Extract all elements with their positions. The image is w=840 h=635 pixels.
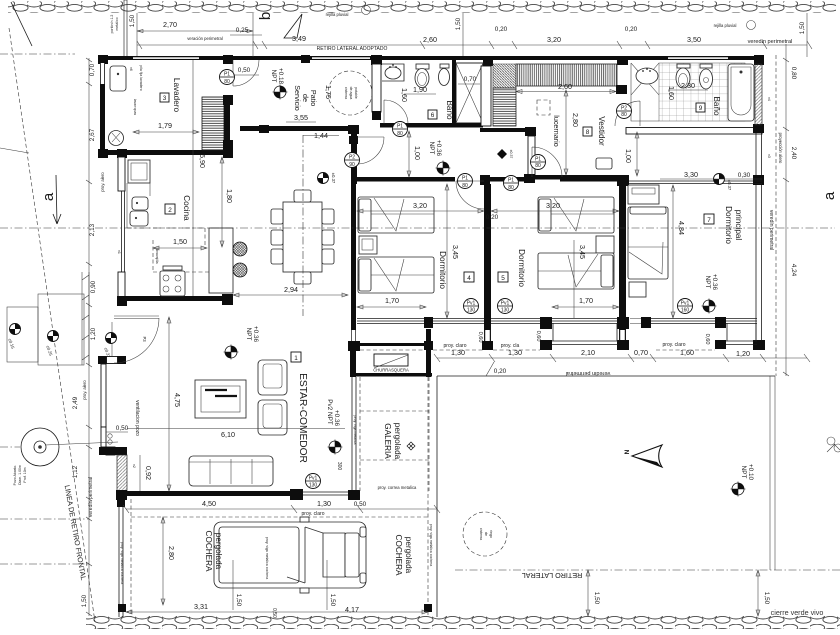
svg-text:NPT: NPT (270, 70, 277, 83)
npt symbol garden +0.10 (731, 482, 746, 497)
svg-text:0,70: 0,70 (634, 348, 648, 357)
svg-text:v2: v2 (132, 464, 136, 468)
door arc bath6 (384, 100, 408, 124)
svg-text:Dormitorio: Dormitorio (438, 251, 447, 289)
svg-text:1,50: 1,50 (81, 594, 88, 607)
bath9 bathtub (728, 64, 754, 121)
column east SE (753, 340, 765, 350)
svg-text:ventilacion pozo: ventilacion pozo (134, 400, 140, 436)
window bay dorm5 (552, 319, 618, 345)
section arrow a left (53, 175, 61, 224)
lucernario dark triangle corner (493, 64, 516, 88)
svg-text:proy. alero: proy. alero (82, 380, 87, 400)
bath9 sink (636, 68, 658, 84)
svg-text:cisterna: cisterna (344, 87, 348, 99)
hatched column circle 2 (233, 263, 247, 277)
svg-text:80: 80 (224, 79, 230, 85)
svg-text:3,55: 3,55 (294, 113, 308, 122)
svg-text:b: b (257, 12, 274, 20)
svg-text:Vestidor: Vestidor (597, 116, 606, 146)
svg-text:veración perimetral: veración perimetral (187, 36, 223, 41)
svg-text:3,20: 3,20 (413, 201, 427, 210)
svg-text:0,60: 0,60 (535, 331, 541, 342)
svg-text:COCHERA: COCHERA (204, 531, 213, 572)
svg-text:P2: P2 (621, 106, 627, 112)
stone boundary wall top (8, 2, 836, 13)
column top wall x488 (483, 56, 493, 66)
door circle bath6 P1 (393, 122, 408, 138)
svg-text:0,80: 0,80 (790, 67, 797, 80)
svg-text:6,10: 6,10 (221, 430, 235, 439)
wall: top exterior (100, 56, 762, 60)
column top wall x623 (617, 56, 628, 65)
dorm4 bed2 (358, 257, 434, 293)
svg-text:Baño: Baño (712, 96, 721, 116)
svg-text:0,50: 0,50 (271, 608, 277, 618)
svg-text:CHURRASQUERA: CHURRASQUERA (373, 368, 409, 373)
svg-text:1,50: 1,50 (129, 14, 136, 27)
estar armchair 1 (258, 360, 287, 395)
svg-text:2,30: 2,30 (681, 81, 695, 90)
wall: dorm4-dorm5 (484, 184, 491, 342)
svg-text:portón h 1.2: portón h 1.2 (110, 15, 114, 34)
stone boundary wall bottom (86, 616, 840, 629)
wall shower east (481, 66, 491, 126)
window circle Pv1 dorm4 (464, 299, 479, 314)
window bath9 top wall (668, 57, 728, 59)
svg-text:2,13: 2,13 (89, 223, 96, 236)
svg-text:2,40: 2,40 (790, 147, 797, 160)
svg-text:potable: potable (354, 87, 358, 99)
svg-text:4,17: 4,17 (345, 605, 359, 614)
svg-text:proy. alero: proy. alero (100, 172, 105, 192)
svg-text:5: 5 (501, 275, 505, 282)
column x530 y128 (525, 127, 536, 136)
leader line mid-left (0, 148, 29, 153)
column kitchen SE (222, 294, 233, 305)
column win x540 (540, 317, 552, 329)
section line a-a mid (0, 227, 89, 229)
svg-text:160: 160 (681, 308, 690, 314)
svg-text:P2: P2 (349, 155, 355, 161)
svg-text:1,79: 1,79 (158, 121, 172, 130)
dining chairs right (322, 209, 334, 224)
svg-text:1,80: 1,80 (225, 189, 234, 203)
wall: kitchen west lower (118, 272, 125, 298)
svg-text:lucernario: lucernario (552, 115, 561, 147)
wall: bedroom top x490-532 (490, 177, 532, 182)
svg-text:veredín perimetral: veredín perimetral (88, 477, 94, 517)
level mark +-0.25 (45, 331, 58, 357)
bath9 toilet (677, 64, 690, 68)
boundary diagonal top-left corner (11, 2, 32, 46)
wall: vestidor south (526, 175, 627, 180)
proy viga dashed cochera east (427, 377, 429, 617)
svg-text:N: N (624, 449, 631, 454)
svg-text:3,45: 3,45 (578, 245, 587, 259)
column stairs NE (223, 95, 233, 105)
svg-text:2: 2 (168, 207, 172, 214)
svg-text:1,12: 1,12 (72, 465, 79, 478)
terrace edge vertical east (770, 376, 775, 570)
svg-text:1,60: 1,60 (667, 86, 676, 100)
svg-text:0,50: 0,50 (354, 501, 367, 508)
level mark principal +-0.37 (714, 174, 733, 191)
wall: patio-bath pillar (372, 64, 381, 112)
svg-text:9: 9 (699, 105, 703, 112)
svg-text:1,30: 1,30 (317, 499, 331, 508)
bath9 bidet (700, 64, 712, 68)
svg-text:±0.37: ±0.37 (727, 180, 732, 191)
svg-text:5,90: 5,90 (198, 154, 207, 168)
section arrow b (284, 14, 302, 38)
dorm4 nightstand (359, 236, 377, 254)
column dorm4 SW (348, 341, 360, 351)
lucernario roof hatch vertical block (493, 88, 516, 126)
wall: bath9 south (626, 128, 762, 135)
svg-text:0,70: 0,70 (464, 76, 477, 83)
section b dashed interior (302, 135, 304, 316)
kitchen stove (160, 271, 185, 296)
wall: lucernario room south (480, 128, 536, 132)
gate posts top-left (124, 0, 127, 57)
right dim ticks (783, 58, 789, 376)
svg-text:4,50: 4,50 (202, 499, 216, 508)
svg-text:4,24: 4,24 (790, 264, 797, 277)
vestidor bench (596, 158, 612, 169)
svg-text:a: a (40, 192, 57, 201)
retiro lateral dashed line (455, 569, 840, 571)
column top wall x377 (371, 55, 382, 65)
churrasquera bbq box (374, 354, 408, 366)
svg-text:4: 4 (467, 275, 471, 282)
column top wall x305 (301, 55, 310, 63)
svg-text:NPT: NPT (245, 328, 252, 341)
wall: kitchen west upper (118, 157, 125, 191)
b dim vertical (252, 13, 254, 57)
window circle Pv1 estar (306, 474, 321, 489)
column win x643 (641, 317, 651, 328)
window v6 top wall (133, 57, 199, 59)
column dorm5p y318 (617, 317, 629, 329)
svg-text:2,67: 2,67 (89, 128, 96, 141)
svg-text:80: 80 (462, 183, 468, 189)
top dimension line (137, 44, 807, 46)
wall churrasquera left (350, 351, 356, 377)
dashed proy line right of house (775, 55, 777, 376)
npt symbol estar +0.36 (224, 345, 239, 360)
svg-text:0,50: 0,50 (116, 425, 129, 432)
svg-text:1,20: 1,20 (90, 327, 97, 340)
wall: lucernario-vestidor divider (528, 136, 535, 176)
svg-text:1,70: 1,70 (385, 296, 399, 305)
column east x757 y176 (753, 175, 764, 185)
svg-text:80: 80 (508, 185, 514, 191)
svg-text:v4: v4 (767, 97, 771, 101)
svg-text:2,49: 2,49 (72, 396, 79, 409)
svg-text:1,20: 1,20 (736, 349, 750, 358)
svg-text:Diam. 1.00m: Diam. 1.00m (18, 465, 22, 485)
svg-text:0,70: 0,70 (89, 63, 96, 76)
svg-text:3,30: 3,30 (684, 170, 698, 179)
estar armchair 2 (258, 400, 287, 435)
door circle dorm5 P1 (531, 155, 546, 170)
top dim vertical at x463 (462, 13, 464, 57)
svg-text:1,60: 1,60 (400, 88, 409, 102)
svg-text:3,20: 3,20 (547, 35, 561, 44)
svg-text:0,20: 0,20 (495, 26, 508, 33)
left dimension line vertical (88, 58, 90, 616)
door circle hall P2 (345, 153, 360, 169)
svg-text:3,20: 3,20 (546, 201, 560, 210)
svg-text:GALERIA: GALERIA (383, 423, 392, 459)
svg-text:P1: P1 (397, 124, 403, 130)
column pillar S (372, 111, 381, 120)
svg-text:rejilla pluvial: rejilla pluvial (326, 12, 349, 17)
door arc dorm4 (456, 181, 484, 209)
svg-text:COCHERA: COCHERA (394, 535, 403, 576)
column win x424 (424, 317, 433, 328)
floor drain diamond hall (497, 149, 507, 159)
bath9 shower corner (631, 63, 659, 121)
svg-text:+0.10: +0.10 (747, 464, 754, 481)
svg-text:1,50: 1,50 (799, 21, 806, 34)
level mark +-0.15 (7, 324, 20, 350)
svg-text:7: 7 (707, 217, 711, 224)
svg-text:lavarropas: lavarropas (133, 99, 137, 116)
npt symbol hall +0.36 (436, 161, 451, 176)
svg-text:+0.36: +0.36 (252, 326, 259, 343)
column bay x540 low (540, 340, 552, 350)
svg-text:metálico: metálico (115, 17, 119, 30)
dim 1,50 garden right (757, 570, 759, 616)
wall: east window upper (756, 133, 762, 177)
column bedroom top x484 (480, 175, 490, 185)
dorm4 bed1 (358, 197, 434, 233)
wall: kitchen west thin (122, 191, 125, 272)
principal bed (628, 207, 668, 279)
dashed proy claro cochera (131, 516, 428, 518)
window left wall lavadero (101, 63, 104, 84)
svg-text:0,25: 0,25 (236, 27, 249, 34)
principal nightstand (629, 282, 646, 297)
wall: dorm5-principal (619, 184, 626, 341)
door arc dorm5 (532, 147, 562, 177)
bedroom south window band seg1 (357, 319, 424, 324)
wall stairs east (224, 97, 230, 151)
wall churrasquera bottom (350, 373, 432, 377)
svg-text:P1: P1 (224, 72, 230, 78)
wall: hall west (351, 131, 357, 184)
door sill estar west (114, 316, 159, 319)
column dorm45 S (482, 341, 493, 350)
wall: estar west hatched (117, 455, 127, 492)
svg-text:2,94: 2,94 (284, 285, 298, 294)
leader line level mark (111, 322, 113, 356)
bedroom south window band seg2 (433, 319, 484, 324)
column kitchen SW (117, 296, 127, 306)
vent window 0,50 (101, 427, 106, 447)
rejilla circle right (747, 21, 756, 30)
column estar SW (116, 490, 127, 500)
vent circles (108, 434, 112, 438)
svg-text:0,60: 0,60 (704, 334, 710, 345)
svg-text:8: 8 (586, 129, 590, 136)
column top wall x227 (223, 55, 233, 64)
svg-text:6: 6 (431, 112, 435, 119)
svg-text:Baño: Baño (445, 100, 454, 120)
svg-text:±0.37: ±0.37 (331, 173, 336, 184)
kitchen bar counter (209, 228, 233, 293)
svg-text:2,60: 2,60 (558, 82, 572, 91)
svg-text:v3: v3 (767, 154, 771, 158)
svg-text:Pv1: Pv1 (309, 476, 318, 482)
column lavadero SW (98, 149, 108, 158)
svg-text:0,20: 0,20 (486, 214, 499, 221)
svg-text:3,31: 3,31 (194, 602, 208, 611)
svg-text:Pozo Abasto.: Pozo Abasto. (13, 465, 17, 486)
wall: shower west (452, 60, 456, 127)
svg-text:Pv1: Pv1 (467, 301, 476, 307)
cisterna agua potable dashed circle (328, 71, 372, 115)
svg-text:pergolada: pergolada (214, 533, 223, 570)
svg-text:300: 300 (336, 462, 342, 471)
svg-text:Cocina: Cocina (182, 195, 191, 221)
svg-text:1,60: 1,60 (680, 348, 694, 357)
column galeria SW (348, 490, 360, 500)
svg-text:proyección alero: proyección alero (778, 133, 783, 164)
svg-text:1,00: 1,00 (413, 146, 422, 160)
svg-text:pila fija lavadero: pila fija lavadero (139, 65, 143, 90)
door arc lavadero (233, 60, 259, 86)
wall: estar south (122, 491, 294, 496)
dining chairs left (271, 209, 283, 224)
bath6 bidet (440, 64, 449, 68)
svg-text:P1: P1 (535, 157, 541, 163)
svg-text:1,30: 1,30 (451, 348, 465, 357)
door arc kitchen P3 (114, 318, 159, 363)
column hall x353 y137 (349, 136, 358, 144)
svg-text:0,90: 0,90 (90, 280, 97, 293)
wall: bath6 south (380, 123, 483, 128)
pergola beam estar-galeria (303, 492, 349, 495)
svg-text:90: 90 (349, 162, 355, 168)
svg-text:0,60: 0,60 (477, 332, 483, 343)
svg-text:3,49: 3,49 (292, 34, 306, 43)
wall: principal north (626, 181, 762, 184)
galeria west beam (352, 377, 356, 490)
svg-text:P1: P1 (462, 176, 468, 182)
stairs hatched (202, 97, 224, 151)
svg-text:NPT: NPT (704, 276, 711, 289)
door circle corridor P1 (458, 174, 473, 190)
wall: kitchen south (121, 296, 229, 301)
column stairs SE (223, 140, 233, 150)
svg-text:veredin perimetral: veredin perimetral (566, 370, 611, 376)
svg-text:1,50: 1,50 (593, 592, 600, 605)
bedroom south window band seg3 (491, 319, 542, 324)
column churras x424 low (424, 341, 433, 350)
bath6 vanity (382, 64, 404, 81)
wall: bedroom top x560-622 (560, 177, 622, 182)
dorm5 nightstand (596, 236, 614, 253)
svg-text:1,50: 1,50 (173, 237, 187, 246)
property diagonal dashed line left (9, 28, 95, 622)
dining chair bottom (294, 272, 311, 284)
svg-text:80: 80 (397, 131, 403, 137)
svg-text:0,20: 0,20 (494, 368, 507, 375)
svg-text:ESTAR-COMEDOR: ESTAR-COMEDOR (297, 373, 308, 463)
svg-text:pergolada: pergolada (404, 537, 413, 574)
dashed lines bottom-left (0, 518, 89, 520)
wall: estar west mid (101, 364, 106, 427)
north arrow (632, 445, 662, 467)
wall: east window lower (756, 185, 762, 342)
bedroom south window seg4 (651, 319, 717, 324)
dorm5 bed1 (538, 197, 614, 233)
cochera west dashed (130, 499, 132, 617)
door circle dorm4 P1 (504, 176, 519, 192)
estar sofa (189, 456, 273, 486)
section line a-a across plan (95, 227, 835, 229)
svg-text:1,50: 1,50 (763, 592, 770, 605)
svg-text:2,80: 2,80 (571, 113, 580, 127)
door circle lavadero P1 (220, 70, 235, 86)
galeria dashed rect (360, 377, 429, 491)
door sill 0,70 (630, 319, 643, 324)
svg-text:Pv1: Pv1 (681, 301, 690, 307)
cochera east sq bottom (424, 604, 432, 612)
svg-text:a: a (821, 191, 838, 200)
column patio S x355 (348, 125, 359, 134)
estar west door jamb columns (98, 356, 107, 364)
svg-text:pergolada: pergolada (393, 423, 402, 460)
terrace edge vertical west (436, 376, 438, 617)
svg-text:proy. viga metalica cochera: proy. viga metalica cochera (120, 542, 124, 584)
dim row bedrooms south: dashed proy claro (360, 349, 715, 351)
level mark hall +-0.37 (318, 173, 337, 184)
svg-text:130: 130 (467, 308, 476, 314)
principal wardrobe (628, 185, 659, 204)
svg-text:NPT: NPT (428, 142, 435, 155)
estar tv cabinet (195, 380, 246, 418)
svg-text:principal: principal (734, 210, 743, 241)
wall: pozo black (99, 447, 127, 455)
steps left terrace (7, 307, 38, 362)
window bay principal (726, 319, 757, 345)
terrace edge horizontal (437, 375, 775, 377)
svg-text:RETIRO LATERAL ADOPTADO: RETIRO LATERAL ADOPTADO (317, 46, 388, 52)
svg-text:2,60: 2,60 (423, 35, 437, 44)
svg-text:Dormitorio: Dormitorio (724, 206, 733, 244)
svg-text:1,50: 1,50 (235, 594, 242, 607)
svg-text:v1: v1 (117, 250, 121, 254)
shower stall with X (456, 63, 483, 123)
kitchen counter edge (127, 183, 150, 228)
svg-text:cisterna: cisterna (479, 528, 483, 540)
dining table (283, 202, 322, 272)
column dorm5p y341 (617, 340, 629, 350)
dim line y358 (437, 357, 807, 359)
svg-text:P3: P3 (142, 336, 147, 342)
wall stub gaps above lower columns (352, 330, 626, 341)
window patio top wall (312, 57, 370, 59)
column lavadero S mid (117, 149, 127, 158)
svg-text:3,50: 3,50 (687, 35, 701, 44)
wall churrasquera right (426, 329, 431, 377)
top dim ticks (137, 41, 812, 49)
svg-text:Servicio: Servicio (293, 85, 302, 111)
